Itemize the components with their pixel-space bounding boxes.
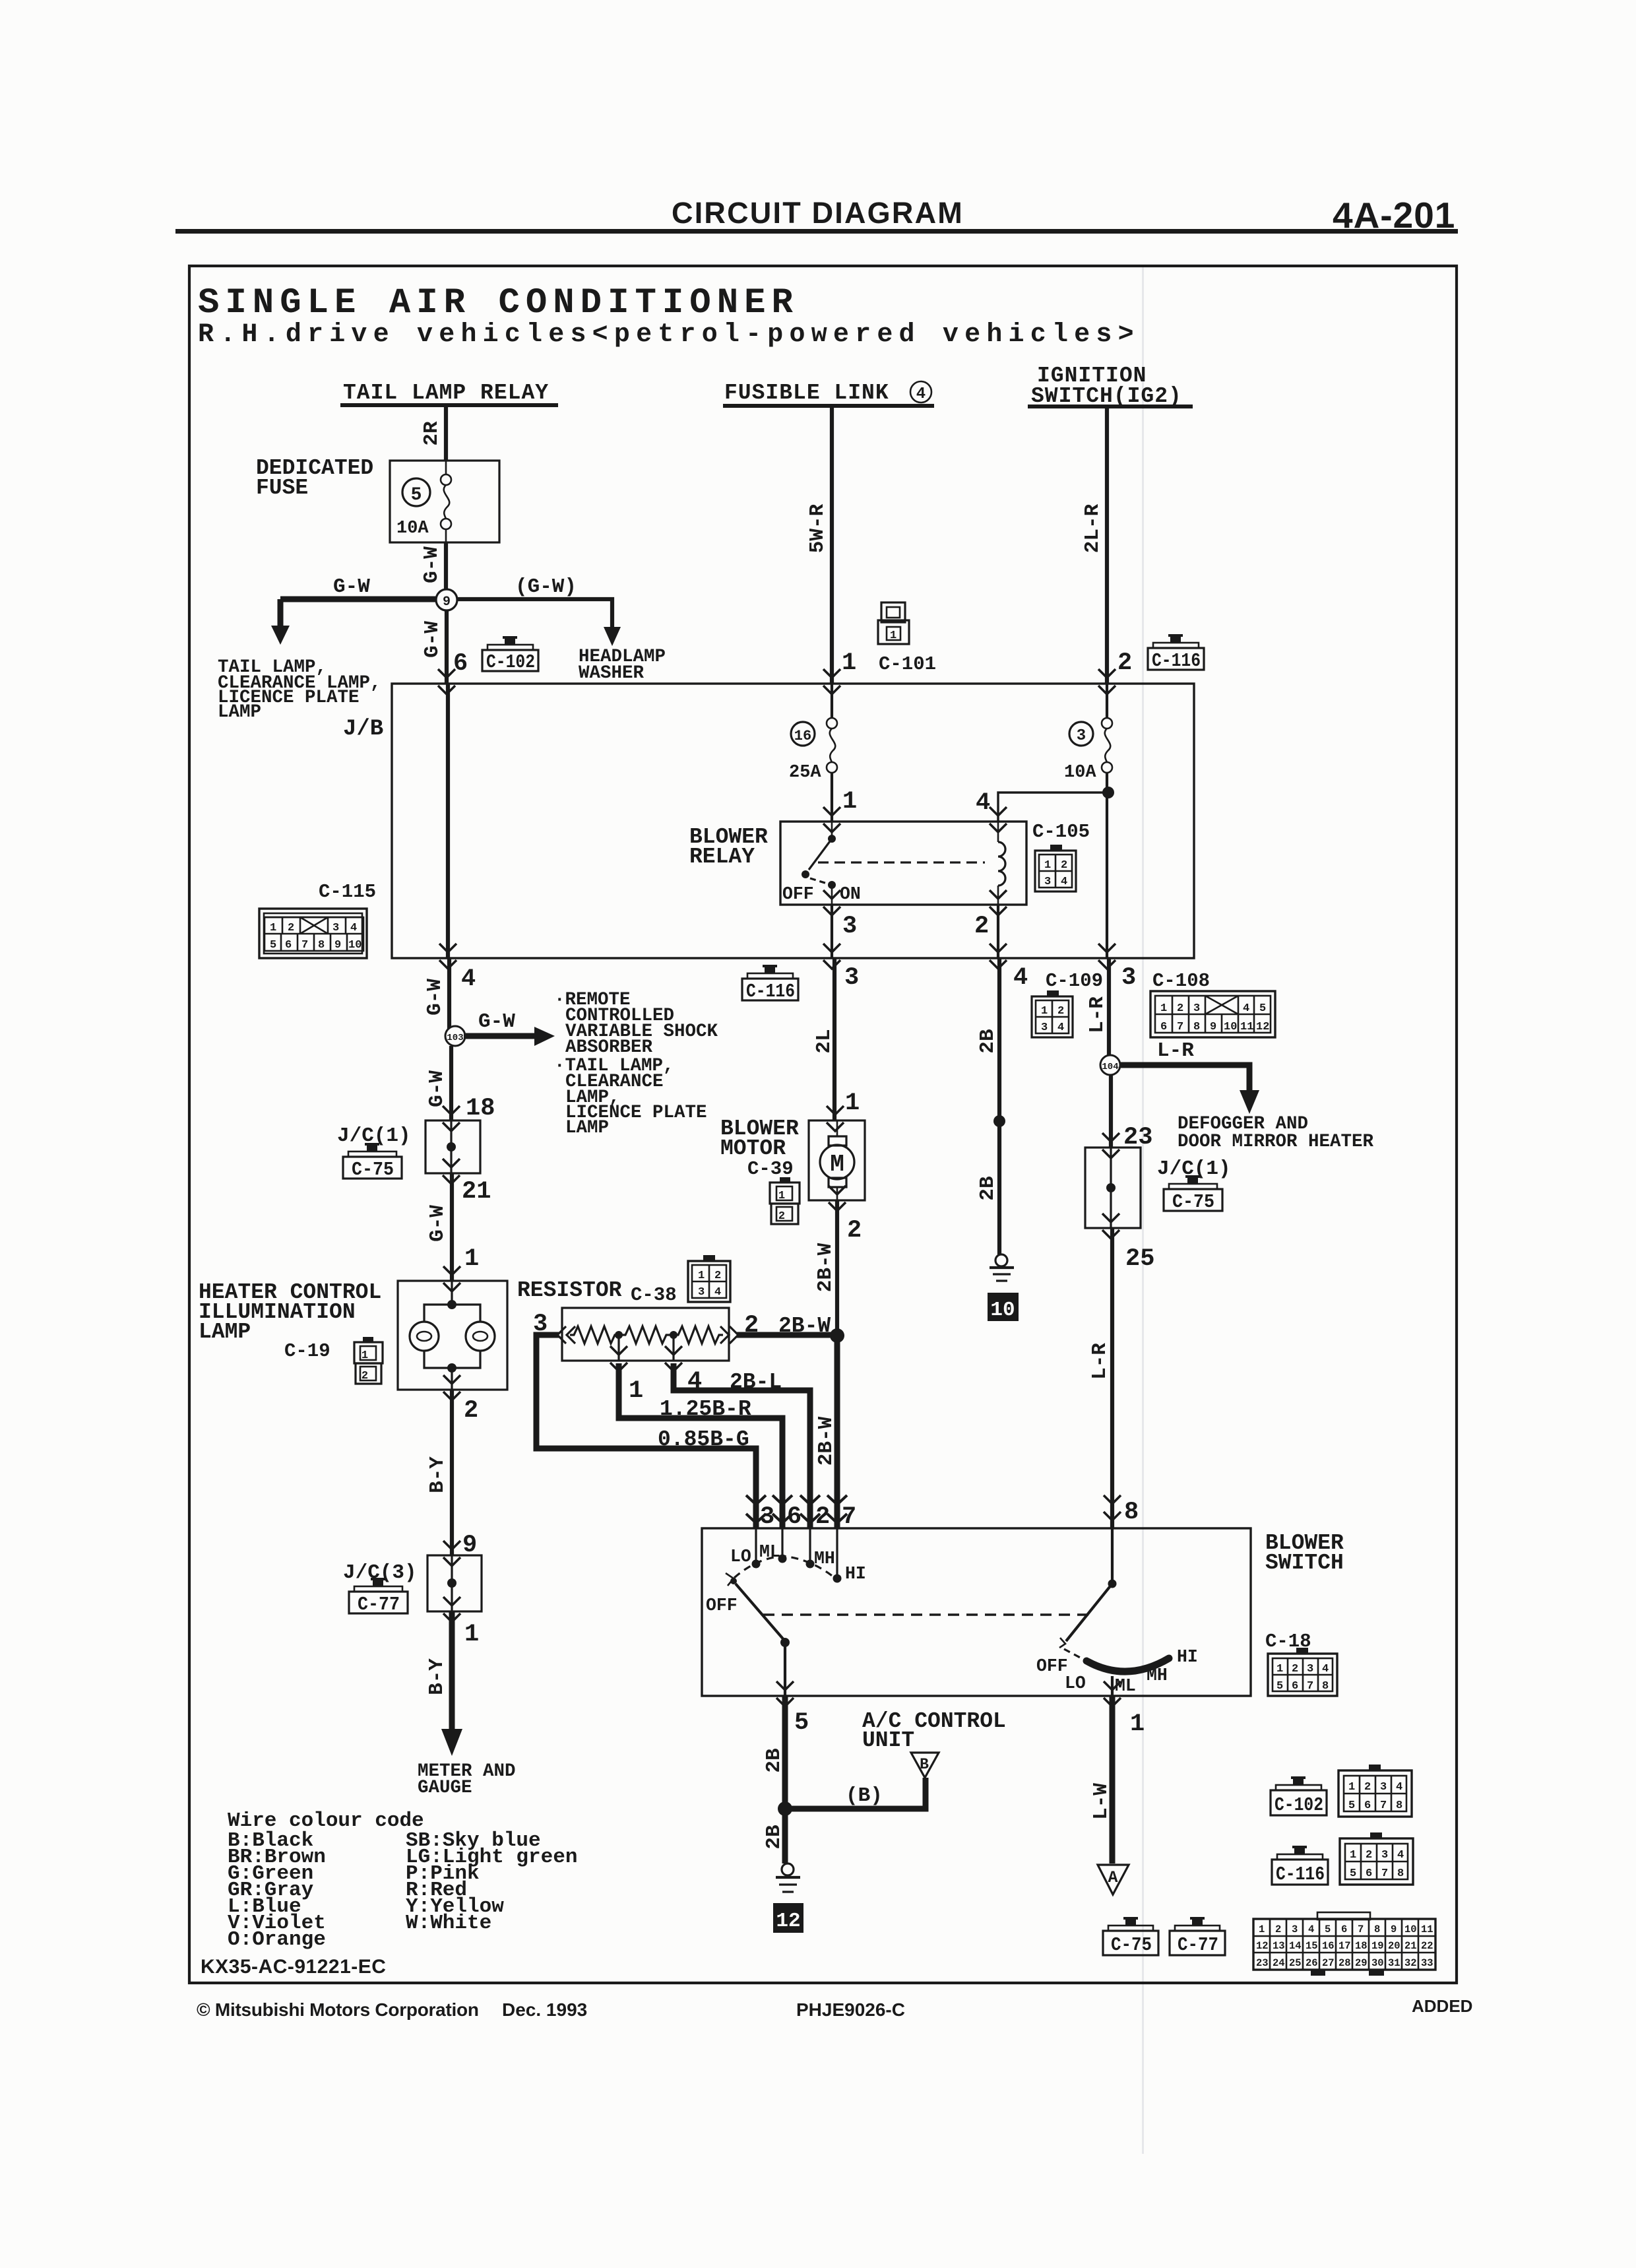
main diagram border frame <box>189 266 1457 1983</box>
svg-text:PHJE9026-C: PHJE9026-C <box>796 1999 905 2020</box>
svg-text:KX35-AC-91221-EC: KX35-AC-91221-EC <box>201 1956 386 1978</box>
svg-text:20: 20 <box>1388 1940 1400 1952</box>
heater control illumination lamp box <box>398 1281 507 1390</box>
page header title <box>672 195 1455 236</box>
svg-text:4: 4 <box>916 385 926 403</box>
svg-text:12: 12 <box>776 1910 800 1933</box>
svg-text:25: 25 <box>1125 1245 1154 1273</box>
label DEFOGGER AND DOOR MIRROR HEATER <box>1178 1114 1374 1152</box>
svg-text:5: 5 <box>1325 1924 1331 1935</box>
svg-text:3: 3 <box>842 913 857 940</box>
svg-text:19: 19 <box>1371 1940 1384 1952</box>
svg-text:B-Y: B-Y <box>426 1456 449 1493</box>
switch right contact arc <box>1086 1658 1169 1671</box>
svg-text:14: 14 <box>1289 1940 1302 1952</box>
svg-text:4: 4 <box>1243 1002 1249 1015</box>
fuse 16 element 25A <box>827 684 837 822</box>
resistor pin 2 wire 2B-W to junction <box>737 1332 837 1338</box>
svg-text:21: 21 <box>462 1178 491 1206</box>
svg-text:2B-W: 2B-W <box>778 1314 831 1338</box>
svg-text:2B-L: 2B-L <box>730 1370 782 1394</box>
svg-text:L-R: L-R <box>1088 1343 1112 1380</box>
svg-text:13: 13 <box>1273 1940 1285 1952</box>
svg-text:2: 2 <box>1364 1781 1371 1794</box>
svg-text:4: 4 <box>1308 1924 1314 1935</box>
svg-text:G-W: G-W <box>478 1010 515 1033</box>
footer copyright <box>197 1996 1472 2020</box>
svg-text:C-116: C-116 <box>1152 650 1201 672</box>
svg-text:5W-R: 5W-R <box>806 503 829 553</box>
svg-text:2: 2 <box>1117 649 1132 677</box>
wire node 104 to J/C(1) right <box>1109 1074 1113 1148</box>
svg-text:33: 33 <box>1421 1957 1433 1969</box>
svg-text:FUSE: FUSE <box>256 476 308 500</box>
svg-text:SINGLE AIR CONDITIONER: SINGLE AIR CONDITIONER <box>198 283 799 323</box>
svg-text:9: 9 <box>1391 1924 1397 1935</box>
connector C-109 icon <box>1032 990 1073 1037</box>
connector C-75 (left) <box>343 1143 402 1181</box>
svg-text:2R: 2R <box>420 421 443 446</box>
svg-text:10: 10 <box>1404 1924 1417 1935</box>
J/C(1) right exit pin 25 <box>1102 1214 1119 1239</box>
fuse element 10A <box>441 461 451 542</box>
connector C-108 icon <box>1150 991 1275 1037</box>
svg-text:16: 16 <box>1322 1940 1335 1952</box>
scanner streak <box>1142 267 1144 2154</box>
svg-text:C-102: C-102 <box>486 651 535 673</box>
svg-text:C-102: C-102 <box>1274 1794 1323 1816</box>
svg-text:LAMP: LAMP <box>565 1118 609 1138</box>
svg-text:1: 1 <box>362 1349 368 1362</box>
svg-text:10: 10 <box>990 1299 1015 1322</box>
wire 5W-R fusible link <box>830 408 834 684</box>
svg-text:3: 3 <box>1307 1663 1313 1675</box>
svg-text:2B: 2B <box>976 1176 999 1200</box>
svg-text:MOTOR: MOTOR <box>720 1136 786 1161</box>
label tail/clearance/licence lamp <box>218 657 381 723</box>
relay coil <box>998 822 1005 905</box>
wire G-W J/B to node 103 <box>447 958 451 1037</box>
svg-text:C-75: C-75 <box>352 1159 394 1181</box>
svg-text:1: 1 <box>464 1621 479 1648</box>
resistor pin 1 drop <box>610 1335 782 1528</box>
motor exit pin 2 <box>829 1186 846 1211</box>
svg-text:© Mitsubishi Motors Corporatio: © Mitsubishi Motors Corporation <box>197 1999 479 2020</box>
switch left movable arm <box>726 1573 790 1647</box>
fuse 3 circle <box>1069 722 1093 746</box>
connector C-38 icon <box>688 1255 730 1302</box>
svg-text:1.25B-R: 1.25B-R <box>660 1397 751 1421</box>
connector C-116 pin icon <box>1340 1832 1413 1885</box>
wire 2B-W motor to junction <box>835 1200 839 1336</box>
J/B entry chevrons (tail line) <box>438 669 455 694</box>
svg-text:O:Orange: O:Orange <box>228 1928 326 1951</box>
switch left output wire <box>784 1642 786 1696</box>
label TAIL LAMP RELAY <box>340 381 558 407</box>
svg-text:4: 4 <box>1013 964 1028 992</box>
svg-text:8: 8 <box>1396 1799 1402 1812</box>
svg-text:2: 2 <box>847 1217 862 1245</box>
switch right output wire <box>1111 1676 1114 1696</box>
J/B entry chevrons (fusible line) <box>823 669 840 694</box>
svg-text:ML: ML <box>1115 1676 1136 1696</box>
svg-text:C-116: C-116 <box>746 981 795 1002</box>
svg-text:HI: HI <box>845 1564 866 1584</box>
switch left dashed selector arc <box>734 1556 834 1578</box>
svg-text:C-75: C-75 <box>1172 1191 1214 1213</box>
svg-text:SWITCH: SWITCH <box>1265 1551 1344 1575</box>
connector C-102 (top) <box>482 636 538 673</box>
svg-text:C-19: C-19 <box>284 1340 330 1362</box>
svg-text:18: 18 <box>1355 1940 1368 1952</box>
svg-text:5: 5 <box>270 939 276 952</box>
svg-text:1: 1 <box>1160 1002 1167 1015</box>
svg-text:C-109: C-109 <box>1046 970 1103 992</box>
svg-text:1: 1 <box>845 1089 860 1117</box>
wire 2B J/B pin4 down to ground <box>997 958 1001 1254</box>
svg-text:1: 1 <box>698 1270 705 1282</box>
blower motor M <box>820 1120 854 1200</box>
svg-text:4: 4 <box>461 965 476 993</box>
wire branch L-R to defogger <box>1119 1065 1259 1114</box>
svg-text:(G-W): (G-W) <box>515 575 577 599</box>
svg-text:1: 1 <box>842 649 856 677</box>
svg-text:31: 31 <box>1388 1957 1400 1969</box>
J/B exit pin 3 to C-108 <box>1098 944 1116 969</box>
svg-text:C-77: C-77 <box>1178 1934 1218 1956</box>
svg-text:OFF: OFF <box>706 1596 738 1615</box>
wire B-Y to meter and gauge <box>441 1611 462 1756</box>
svg-text:22: 22 <box>1421 1940 1433 1952</box>
svg-text:ADDED: ADDED <box>1412 1996 1472 2016</box>
svg-text:LAMP: LAMP <box>218 702 261 723</box>
svg-text:6: 6 <box>1160 1021 1167 1033</box>
relay dashed link <box>818 861 985 863</box>
label BLOWER SWITCH <box>1265 1531 1344 1575</box>
svg-text:G-W: G-W <box>425 1070 449 1107</box>
svg-text:(B): (B) <box>846 1784 883 1807</box>
heater lamp exit pin 2 <box>443 1375 460 1400</box>
svg-text:3: 3 <box>332 922 339 934</box>
svg-text:2B-W: 2B-W <box>814 1243 837 1292</box>
svg-text:G-W: G-W <box>424 979 447 1016</box>
svg-text:3: 3 <box>1193 1002 1200 1015</box>
dedicated fuse box <box>390 461 499 542</box>
svg-text:3: 3 <box>1292 1924 1298 1935</box>
svg-text:2: 2 <box>464 1397 478 1425</box>
svg-text:2: 2 <box>1275 1924 1281 1935</box>
svg-text:C-75: C-75 <box>1111 1934 1152 1956</box>
svg-text:2L-R: 2L-R <box>1081 503 1104 553</box>
svg-text:2: 2 <box>1057 1005 1064 1018</box>
svg-text:G-W: G-W <box>421 621 444 658</box>
svg-text:9: 9 <box>443 595 451 610</box>
wire L-R to blower switch pin 8 <box>1110 1228 1114 1528</box>
svg-text:7: 7 <box>842 1503 856 1531</box>
svg-text:Dec. 1993: Dec. 1993 <box>502 1999 587 2020</box>
svg-text:1: 1 <box>1041 1005 1048 1018</box>
svg-text:10A: 10A <box>1064 763 1096 783</box>
svg-text:18: 18 <box>466 1095 495 1122</box>
svg-text:29: 29 <box>1355 1957 1368 1969</box>
svg-text:6: 6 <box>1341 1924 1347 1935</box>
ground symbol 12 <box>776 1863 800 1892</box>
svg-text:9: 9 <box>334 939 341 952</box>
svg-text:103: 103 <box>447 1033 463 1043</box>
svg-text:OFF: OFF <box>1036 1656 1068 1676</box>
J/B exit pin 3 to C-116 <box>823 944 840 969</box>
connector C-102 pin icon <box>1338 1765 1412 1817</box>
svg-text:2B-W: 2B-W <box>815 1416 838 1466</box>
label METER AND GAUGE <box>418 1761 516 1798</box>
svg-text:2B: 2B <box>763 1825 786 1849</box>
svg-text:27: 27 <box>1322 1957 1335 1969</box>
svg-text:3: 3 <box>1380 1781 1387 1794</box>
svg-text:G-W: G-W <box>420 546 443 583</box>
svg-text:17: 17 <box>1338 1940 1351 1952</box>
svg-text:4: 4 <box>976 789 990 817</box>
connector C-77 (left) <box>349 1578 408 1615</box>
svg-text:15: 15 <box>1306 1940 1318 1952</box>
svg-text:B-Y: B-Y <box>425 1658 449 1695</box>
svg-text:3: 3 <box>1044 876 1051 888</box>
connector C-116 (mid) <box>742 965 798 1002</box>
svg-text:C-105: C-105 <box>1032 821 1090 843</box>
label HEATER CONTROL ILLUMINATION LAMP <box>199 1280 381 1344</box>
wire G-W below node 9 <box>445 610 449 684</box>
wire branch right (G-W) to headlamp washer <box>447 599 621 646</box>
svg-text:2: 2 <box>778 1210 785 1223</box>
junction box J/C(1) right <box>1085 1148 1141 1228</box>
junction dot on ignition line <box>1102 787 1114 798</box>
svg-text:C-77: C-77 <box>358 1594 400 1615</box>
J/C(3) exit pin 1 <box>443 1597 460 1622</box>
svg-text:8: 8 <box>318 939 325 952</box>
svg-text:A: A <box>1108 1868 1117 1887</box>
svg-text:1: 1 <box>464 1245 479 1273</box>
fuse 3 element 10A <box>1102 684 1112 958</box>
svg-text:1: 1 <box>270 922 276 934</box>
svg-text:LO: LO <box>730 1547 751 1567</box>
connector C-77 (bottom) <box>1170 1917 1225 1956</box>
svg-text:10: 10 <box>348 939 362 952</box>
svg-text:C-101: C-101 <box>879 653 936 675</box>
connector C-39 icon <box>770 1177 800 1224</box>
wire (B) to A/C control unit <box>785 1778 926 1809</box>
svg-text:4: 4 <box>714 1286 721 1299</box>
svg-text:4: 4 <box>1061 876 1067 888</box>
wire G-W node 103 to J/C(1) <box>449 1046 453 1120</box>
J/C(1) exit pin 21 <box>443 1159 460 1184</box>
svg-text:2B: 2B <box>976 1029 999 1053</box>
wire 2L-R ignition switch <box>1105 408 1109 684</box>
svg-text:11: 11 <box>1421 1924 1433 1935</box>
J/B exit pin 4 to C-109 <box>990 944 1007 969</box>
svg-text:10: 10 <box>1224 1021 1237 1033</box>
resistor pin 4 drop <box>665 1335 810 1528</box>
svg-text:8: 8 <box>1397 1867 1404 1880</box>
svg-text:7: 7 <box>1381 1867 1388 1880</box>
svg-text:8: 8 <box>1124 1499 1139 1526</box>
svg-text:3: 3 <box>1381 1849 1388 1862</box>
svg-text:C-115: C-115 <box>319 881 376 903</box>
A/C control unit triangle B <box>911 1753 939 1778</box>
node 9 <box>436 589 457 610</box>
svg-text:DOOR MIRROR HEATER: DOOR MIRROR HEATER <box>1178 1132 1374 1152</box>
svg-text:6: 6 <box>285 939 292 952</box>
wire colour code legend <box>228 1809 577 1951</box>
svg-text:6: 6 <box>1292 1680 1298 1693</box>
svg-text:2: 2 <box>744 1312 759 1340</box>
svg-text:6: 6 <box>1364 1799 1371 1812</box>
svg-text:1: 1 <box>842 788 857 816</box>
wire to relay coil pin 4 <box>998 793 1108 822</box>
svg-text:1: 1 <box>890 630 897 642</box>
wire 2B-W junction to blower switch pin 7 <box>834 1336 840 1528</box>
svg-text:2: 2 <box>1177 1002 1183 1015</box>
svg-text:4: 4 <box>350 922 357 934</box>
svg-text:M: M <box>830 1151 844 1178</box>
junction box J/C(3) <box>427 1555 482 1611</box>
svg-text:2: 2 <box>974 913 989 940</box>
svg-text:RELAY: RELAY <box>689 845 755 869</box>
svg-text:24: 24 <box>1273 1957 1285 1969</box>
svg-text:21: 21 <box>1404 1940 1417 1952</box>
svg-text:MH: MH <box>1147 1666 1168 1685</box>
svg-text:RESISTOR: RESISTOR <box>517 1278 622 1303</box>
svg-text:ABSORBER: ABSORBER <box>565 1037 653 1058</box>
svg-text:5: 5 <box>1348 1799 1355 1812</box>
svg-text:6: 6 <box>787 1503 802 1531</box>
wire 2R from tail lamp relay <box>444 407 448 461</box>
svg-text:12: 12 <box>1256 1021 1269 1033</box>
blower relay box <box>780 822 1026 905</box>
svg-text:C-116: C-116 <box>1276 1863 1325 1885</box>
wire G-W below fuse <box>444 542 448 599</box>
ground ref box 12 <box>773 1903 803 1933</box>
label BLOWER RELAY <box>689 825 768 869</box>
svg-text:L-W: L-W <box>1090 1783 1113 1820</box>
svg-text:7: 7 <box>1380 1799 1387 1812</box>
connector C-116 (top) <box>1148 634 1204 672</box>
wire 2B switch pin5 to ground <box>782 1696 788 1863</box>
svg-text:GAUGE: GAUGE <box>418 1778 472 1798</box>
resistor box <box>562 1308 729 1361</box>
svg-text:WASHER: WASHER <box>579 663 645 684</box>
svg-text:1: 1 <box>1130 1710 1145 1738</box>
label headlamp washer <box>579 647 666 684</box>
svg-text:7: 7 <box>1307 1680 1313 1693</box>
svg-text:7: 7 <box>1177 1021 1183 1033</box>
wire G-W J/C(1) to heater lamp <box>450 1173 454 1281</box>
svg-text:26: 26 <box>1306 1957 1318 1969</box>
svg-text:9: 9 <box>1210 1021 1216 1033</box>
label BLOWER MOTOR C-39 <box>720 1117 799 1180</box>
wire L-W switch pin1 to connector A <box>1110 1696 1116 1863</box>
svg-text:5: 5 <box>1350 1867 1356 1880</box>
svg-text:1: 1 <box>629 1377 643 1405</box>
svg-text:FUSIBLE LINK: FUSIBLE LINK <box>724 381 889 405</box>
fuse 16 circle <box>791 722 815 746</box>
svg-text:ON: ON <box>840 884 861 904</box>
svg-text:7: 7 <box>301 939 308 952</box>
svg-text:11: 11 <box>1240 1021 1253 1033</box>
blower switch entry chevrons and pins <box>746 1495 766 1523</box>
svg-text:B: B <box>920 1756 929 1773</box>
junction dot 2B-W <box>830 1328 844 1343</box>
svg-text:4: 4 <box>1397 1849 1404 1862</box>
label FUSIBLE LINK (4) <box>723 381 934 408</box>
connector C-18 icon <box>1268 1648 1337 1696</box>
svg-text:HI: HI <box>1177 1647 1198 1667</box>
svg-text:C-108: C-108 <box>1152 970 1210 992</box>
ground ref box 10 <box>988 1293 1019 1322</box>
svg-text:12: 12 <box>1256 1940 1269 1952</box>
svg-text:1: 1 <box>778 1190 785 1202</box>
connector C-102 (bottom) <box>1271 1776 1327 1816</box>
svg-text:1: 1 <box>1259 1924 1265 1935</box>
label IGNITION SWITCH(IG2) <box>1028 364 1193 408</box>
svg-text:L-R: L-R <box>1086 996 1109 1033</box>
svg-text:C-39: C-39 <box>747 1158 794 1180</box>
relay pin 3 exit <box>823 890 840 915</box>
svg-text:8: 8 <box>1374 1924 1380 1935</box>
svg-text:3: 3 <box>760 1503 774 1531</box>
svg-text:R.H.drive vehicles<petrol-powe: R.H.drive vehicles<petrol-powered vehicl… <box>198 320 1140 350</box>
svg-text:1: 1 <box>1276 1663 1283 1675</box>
svg-text:1: 1 <box>1044 859 1051 872</box>
svg-text:LO: LO <box>1065 1673 1086 1693</box>
J/B exit (tail line) pin 4 <box>439 944 456 969</box>
splice dot on 2B wire <box>993 1115 1005 1127</box>
switch right section pivot <box>1059 1528 1117 1648</box>
svg-text:2B: 2B <box>763 1748 786 1772</box>
blower motor box <box>809 1120 865 1200</box>
svg-text:3: 3 <box>1121 964 1136 992</box>
svg-text:8: 8 <box>1193 1021 1200 1033</box>
header rule <box>175 229 1458 234</box>
svg-text:30: 30 <box>1371 1957 1384 1969</box>
svg-text:3: 3 <box>1041 1021 1048 1034</box>
svg-text:2: 2 <box>362 1370 368 1382</box>
wire relay pin2 to J/B bottom <box>997 905 999 958</box>
svg-text:6: 6 <box>453 650 468 678</box>
connector C-115 icon <box>259 909 367 958</box>
svg-text:4: 4 <box>1396 1781 1402 1794</box>
svg-text:2: 2 <box>815 1503 830 1531</box>
node 103 <box>445 1026 465 1046</box>
dedicated fuse label <box>256 456 373 500</box>
switch coupling dashed line <box>763 1613 1089 1615</box>
resistor pin 3 wire 0.85B-G <box>536 1335 756 1528</box>
wire B-Y heater to J/C(3) <box>450 1390 454 1555</box>
label A/C CONTROL UNIT <box>862 1709 1006 1753</box>
svg-text:16: 16 <box>794 728 811 744</box>
svg-text:7: 7 <box>1358 1924 1364 1935</box>
connector C-75 (right) <box>1164 1175 1222 1213</box>
blower switch box <box>702 1528 1251 1696</box>
switch exit pin 5 <box>776 1681 794 1706</box>
svg-text:5: 5 <box>411 485 422 505</box>
junction box J/C(1) <box>425 1120 480 1173</box>
svg-text:104: 104 <box>1102 1062 1118 1072</box>
relay pin 2 exit <box>990 890 1007 915</box>
connector C-105 icon <box>1035 845 1076 891</box>
svg-text:4: 4 <box>687 1368 702 1396</box>
svg-text:10A: 10A <box>396 519 429 538</box>
ground symbol 10 <box>990 1254 1014 1281</box>
svg-text:6: 6 <box>1366 1867 1372 1880</box>
